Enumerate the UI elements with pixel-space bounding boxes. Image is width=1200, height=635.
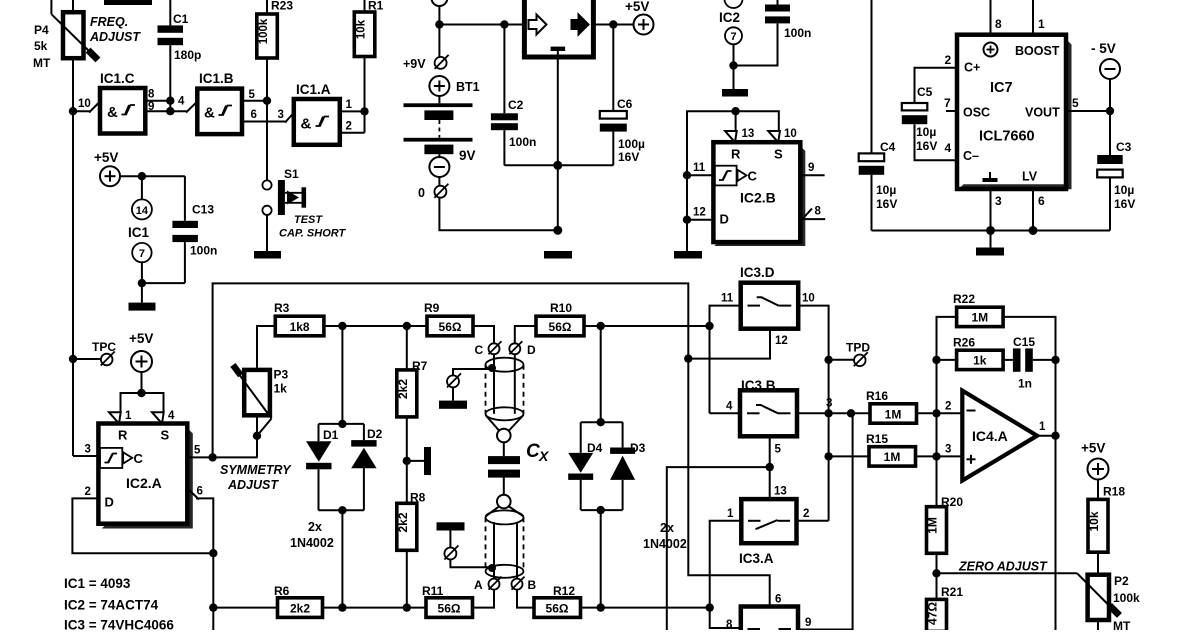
- svg-text:BT1: BT1: [456, 80, 480, 94]
- svg-text:R11: R11: [422, 584, 444, 598]
- wire R1 to IC1.A pins 1,2: [364, 57, 366, 133]
- wire node down to R6 line: [212, 553, 214, 630]
- svg-text:P4: P4: [34, 23, 49, 37]
- capacitor C2: [491, 25, 518, 166]
- svg-text:4: 4: [726, 401, 733, 413]
- node pin9: [166, 107, 174, 115]
- svg-text:9: 9: [808, 162, 814, 174]
- wire IC2.B pin11: [687, 174, 713, 176]
- potentiometer P4: [51, 0, 100, 62]
- svg-text:14: 14: [136, 205, 149, 217]
- svg-text:C: C: [526, 441, 540, 462]
- wire R9 to C terminal: [473, 326, 494, 343]
- wire +5V to R/S bracket: [141, 372, 143, 393]
- node IC3.D pin12 junction: [684, 354, 692, 362]
- wire IC3.B pin5 down: [769, 436, 771, 499]
- svg-text:+5V: +5V: [129, 331, 153, 346]
- diode D4: [568, 453, 593, 510]
- resistor R10 56ohm: [536, 301, 584, 336]
- pin circle 14: [141, 176, 143, 199]
- wire IC3.D pin11: [710, 306, 741, 414]
- IC2 pin circle 7: [725, 27, 742, 44]
- wire IC1.B pin6 to IC1.A pin3 with slash: [242, 121, 287, 123]
- wire IC7 pin1 top: [1032, 0, 1034, 35]
- svg-text:16V: 16V: [916, 139, 937, 153]
- upper guard left stub to ground: [453, 369, 492, 376]
- svg-text:0: 0: [418, 186, 425, 200]
- svg-text:3: 3: [826, 398, 832, 410]
- ground under IC7: [990, 231, 992, 248]
- node pin2/pin6: [209, 549, 217, 557]
- svg-text:C15: C15: [1013, 335, 1035, 349]
- capacitor C5: [902, 103, 957, 160]
- svg-text:TPD: TPD: [846, 341, 870, 355]
- capacitor C13: [142, 176, 198, 283]
- svg-text:11: 11: [693, 162, 706, 174]
- svg-text:+9V: +9V: [403, 57, 426, 71]
- svg-text:C: C: [475, 343, 484, 357]
- svg-text:C6: C6: [617, 97, 633, 111]
- svg-text:S1: S1: [284, 167, 299, 181]
- wire IC7 pin2 C+ to C5: [915, 68, 958, 103]
- svg-text:10: 10: [802, 293, 815, 305]
- wire IC7 pin7 OSC stub: [946, 110, 957, 112]
- S flag pin4: [152, 412, 164, 423]
- wire +5V to C13: [120, 175, 185, 177]
- svg-text:R: R: [731, 147, 741, 162]
- svg-text:10: 10: [78, 98, 91, 110]
- wire to IC1.B pin4 with slash: [170, 110, 187, 112]
- wire B terminal to R12: [517, 590, 534, 608]
- NAND gate IC1.C: [100, 71, 145, 134]
- svg-text:10µ: 10µ: [1114, 183, 1134, 197]
- svg-text:C: C: [748, 169, 758, 184]
- wire op-amp output: [1037, 435, 1055, 437]
- decoupling capacitor 100n at IC2: [734, 0, 791, 66]
- terminal D: [509, 343, 520, 354]
- svg-text:7: 7: [730, 31, 736, 43]
- cut-off gate box at top edge: [104, 0, 152, 5]
- svg-text:8: 8: [726, 619, 733, 630]
- svg-text:IC3.D: IC3.D: [740, 265, 775, 280]
- svg-text:B: B: [528, 578, 537, 592]
- feedback rail R22/R26: [937, 317, 957, 413]
- diode D2: [351, 440, 376, 510]
- wire IC1.B pin5 to R23: [242, 100, 267, 102]
- svg-text:C+: C+: [964, 61, 980, 75]
- svg-text:3: 3: [945, 444, 951, 456]
- svg-text:R22: R22: [953, 292, 975, 306]
- svg-text:D2: D2: [367, 427, 383, 441]
- svg-text:C13: C13: [192, 203, 214, 217]
- svg-text:R6: R6: [274, 584, 290, 598]
- resistor R15 1M: [866, 432, 916, 466]
- svg-text:2: 2: [945, 401, 951, 413]
- wire IC2.A pin6 with slash: [196, 498, 213, 553]
- wire IC2.A pin3 from left rail: [73, 455, 98, 457]
- svg-text:ADJUST: ADJUST: [227, 478, 279, 492]
- svg-text:6: 6: [775, 594, 781, 606]
- bottom chain wire: [213, 607, 277, 609]
- lower guard left stub with ground above: [437, 522, 465, 530]
- svg-text:4: 4: [178, 96, 185, 108]
- svg-text:IC4.A: IC4.A: [972, 428, 1008, 444]
- svg-text:3: 3: [85, 444, 91, 456]
- wire D4/D3 to R12 line: [600, 510, 602, 607]
- svg-text:2x: 2x: [308, 520, 322, 534]
- TPD test point: [824, 356, 832, 364]
- terminal 0: [438, 177, 440, 186]
- battery BT1 plus terminal: [429, 76, 449, 96]
- svg-text:56Ω: 56Ω: [549, 320, 572, 334]
- svg-text:C3: C3: [1116, 140, 1132, 154]
- svg-text:FREQ.: FREQ.: [90, 15, 128, 29]
- svg-text:R: R: [118, 428, 128, 443]
- resistor R1 10k: [354, 0, 383, 57]
- svg-text:10k: 10k: [356, 19, 368, 39]
- svg-text:56Ω: 56Ω: [546, 601, 569, 615]
- wire R7 to R8: [406, 417, 408, 503]
- capacitor under test Cx: [488, 442, 520, 494]
- svg-text:C: C: [134, 451, 144, 466]
- wire IC7 pin3: [990, 189, 992, 231]
- IC2 pin circle 14 cut at top: [725, 0, 743, 8]
- svg-text:8: 8: [815, 206, 822, 218]
- svg-text:4: 4: [945, 141, 952, 155]
- svg-text:SYMMETRY: SYMMETRY: [220, 463, 292, 477]
- NAND gate IC1.A: [294, 82, 340, 145]
- node IC3.A pin1 / pin8: [706, 603, 714, 611]
- capacitor C6 electrolytic: [600, 25, 627, 166]
- svg-text:D: D: [527, 343, 536, 357]
- wire R12 to IC3 area: [581, 607, 710, 609]
- svg-text:13: 13: [742, 128, 755, 140]
- svg-text:X: X: [538, 448, 550, 464]
- svg-text:1M: 1M: [884, 450, 901, 464]
- svg-text:S: S: [161, 428, 170, 443]
- IC7 ICL7660 box: [957, 35, 1072, 190]
- battery BT1 cells: [404, 96, 473, 154]
- wire 7 to ground: [141, 262, 143, 302]
- op-amp IC4.A: [962, 391, 1037, 481]
- wire D1/D2 feed: [341, 326, 343, 424]
- svg-text:CAP. SHORT: CAP. SHORT: [279, 228, 347, 240]
- potentiometer P2: [1077, 573, 1122, 630]
- svg-text:IC1.A: IC1.A: [296, 82, 331, 97]
- diode pair D1 D2 rails: [319, 423, 364, 425]
- svg-text:IC2: IC2: [719, 10, 740, 25]
- svg-text:1M: 1M: [926, 517, 940, 534]
- svg-text:100n: 100n: [509, 135, 536, 149]
- svg-text:9: 9: [148, 101, 154, 113]
- svg-text:1k: 1k: [973, 354, 987, 368]
- svg-text:C5: C5: [917, 85, 933, 99]
- switch S1 TEST CAP.SHORT: [262, 167, 306, 215]
- svg-text:4: 4: [168, 410, 175, 422]
- svg-text:16V: 16V: [618, 150, 639, 164]
- svg-text:3: 3: [995, 194, 1002, 208]
- svg-text:BOOST: BOOST: [1015, 44, 1060, 58]
- svg-text:1M: 1M: [885, 407, 902, 421]
- svg-text:100µ: 100µ: [618, 137, 645, 151]
- resistor R18 10k: [1087, 499, 1108, 552]
- svg-text:R26: R26: [953, 336, 975, 350]
- lower guard can: [486, 495, 524, 579]
- upper guard can: [486, 354, 524, 442]
- svg-text:MT: MT: [1113, 619, 1131, 630]
- svg-text:5: 5: [1072, 96, 1079, 110]
- svg-text:2: 2: [85, 486, 91, 498]
- svg-text:ICL7660: ICL7660: [979, 129, 1035, 145]
- svg-text:TPC: TPC: [92, 340, 116, 354]
- svg-text:&: &: [301, 116, 312, 133]
- svg-text:IC1.C: IC1.C: [100, 71, 135, 86]
- svg-text:100k: 100k: [1113, 591, 1140, 605]
- svg-text:1: 1: [346, 99, 353, 111]
- diode pair bottom rail: [319, 509, 364, 511]
- ground under IC1: [129, 303, 156, 311]
- svg-text:2k2: 2k2: [396, 512, 410, 532]
- svg-text:2: 2: [803, 508, 809, 520]
- wire R15 line from TPD rail: [829, 455, 869, 457]
- svg-text:LV: LV: [1022, 170, 1038, 184]
- wire IC2 pin7 to ground: [733, 44, 735, 89]
- node R23/pin5: [263, 97, 271, 105]
- svg-text:47Ω: 47Ω: [926, 602, 940, 625]
- wire pin5 branch to bottom edge: [667, 467, 770, 630]
- wire IC1.C pin9: [145, 110, 170, 112]
- svg-text:1k: 1k: [274, 382, 288, 396]
- resistor R7 2k2: [396, 326, 428, 417]
- wire IC2.B pin8 stub with slash: [800, 218, 825, 220]
- svg-text:100n: 100n: [190, 244, 217, 258]
- svg-text:11: 11: [721, 293, 734, 305]
- screen electrode at R7/R8 junction: [407, 460, 424, 462]
- R flag pin13: [725, 131, 737, 142]
- wire IC2.A pin2: [72, 498, 213, 553]
- svg-text:IC1.B: IC1.B: [199, 71, 234, 86]
- analog switch IC3.A: [739, 486, 797, 567]
- terminal circle at top edge above battery: [431, 0, 447, 6]
- wire +5V to R18: [1097, 480, 1099, 500]
- capacitor C4: [859, 0, 885, 231]
- wire R16 to op-amp pin2: [917, 412, 963, 414]
- wire IC3.A pin1: [710, 521, 742, 608]
- svg-text:5k: 5k: [34, 39, 48, 53]
- diode D3: [610, 448, 635, 511]
- svg-text:S: S: [774, 147, 783, 162]
- diode D1: [306, 441, 331, 510]
- wire zero adjust to P2 wiper: [937, 572, 1078, 574]
- wire IC2.B pin12: [687, 219, 713, 221]
- resistor R21 47ohm: [926, 585, 964, 631]
- NAND gate IC1.B: [197, 71, 242, 134]
- wire IC3.B pin3 to R16: [797, 412, 870, 414]
- svg-text:+5V: +5V: [625, 0, 649, 14]
- svg-text:- 5V: - 5V: [1091, 41, 1116, 56]
- svg-text:7: 7: [139, 248, 145, 260]
- ground rail under IC7: [872, 230, 1111, 232]
- wire R23 down to S1 (crosses pin6 line): [266, 58, 268, 181]
- svg-text:180p: 180p: [174, 48, 201, 62]
- wire IC1.C pin10 input with slash: [73, 110, 91, 112]
- wire IC3.B pin4: [710, 412, 741, 414]
- R flag pin1: [109, 412, 121, 423]
- svg-text:OSC: OSC: [963, 106, 990, 120]
- svg-text:D4: D4: [587, 441, 603, 455]
- svg-text:C2: C2: [508, 98, 524, 112]
- svg-text:6: 6: [251, 109, 257, 121]
- svg-text:D3: D3: [630, 441, 646, 455]
- wire R10 to IC3.B pin4 rail: [584, 325, 710, 327]
- svg-text:3: 3: [278, 109, 284, 121]
- svg-text:D1: D1: [323, 428, 339, 442]
- S flag pin10: [768, 131, 780, 142]
- wire regulator out to +5V: [593, 24, 633, 26]
- TPC test point: [69, 355, 77, 363]
- wire IC3.D pin12: [688, 329, 770, 359]
- wire P3 bottom to pin5 line: [256, 415, 258, 457]
- wire feedback rail to IC3 (line A): [213, 283, 770, 606]
- wire P4 top stub: [72, 0, 74, 12]
- wire R11 to A terminal: [473, 590, 495, 608]
- resistor R23 100k: [257, 0, 294, 58]
- analog switch IC3.C: [741, 594, 798, 635]
- node P4/IC1.C pin10: [69, 107, 77, 115]
- svg-text:2: 2: [346, 121, 352, 133]
- wire R22 right: [1003, 317, 1055, 630]
- svg-text:R15: R15: [866, 432, 888, 446]
- svg-text:2: 2: [945, 53, 952, 67]
- wire IC2.A pin5: [187, 456, 257, 458]
- wire IC2.B pin9 stub: [800, 174, 824, 176]
- capacitor C3: [1097, 111, 1123, 231]
- terminal B: [512, 579, 523, 590]
- svg-text:R9: R9: [424, 301, 440, 315]
- resistor R11 56ohm: [422, 584, 473, 617]
- svg-text:IC2.B: IC2.B: [740, 190, 776, 206]
- flip-flop IC2.B top wire: [687, 111, 779, 175]
- resistor R8 2k2: [396, 491, 426, 551]
- flip-flop IC2.A box: [98, 424, 192, 529]
- svg-text:2k2: 2k2: [396, 379, 410, 399]
- wire IC1.A pin1: [340, 110, 365, 112]
- svg-text:1N4002: 1N4002: [643, 537, 687, 551]
- svg-text:&: &: [107, 104, 118, 121]
- svg-text:5: 5: [249, 89, 256, 101]
- svg-text:8: 8: [995, 17, 1002, 31]
- resistor R12 56ohm: [534, 584, 581, 617]
- svg-text:5: 5: [775, 444, 782, 456]
- voltage regulator box (cut at top): [524, 0, 593, 57]
- wire IC7 pin6: [1032, 189, 1034, 231]
- wire IC3.C pin9: [798, 413, 853, 629]
- wire IC2.B left rail to ground: [686, 175, 688, 251]
- svg-text:100k: 100k: [258, 18, 270, 44]
- resistor R3 1k8: [274, 301, 324, 336]
- wire D terminal to R10: [515, 326, 536, 343]
- svg-text:IC1: IC1: [128, 225, 150, 240]
- svg-text:R3: R3: [274, 301, 290, 315]
- svg-text:IC1 = 4093: IC1 = 4093: [64, 576, 131, 591]
- svg-text:8: 8: [148, 89, 155, 101]
- diode pair D4 D3 bottom rail: [581, 509, 623, 511]
- wire battery top to regulator: [438, 6, 440, 57]
- svg-text:ZERO ADJUST: ZERO ADJUST: [958, 560, 1048, 574]
- svg-text:5: 5: [194, 445, 201, 457]
- diode pair D4 D3 top rail: [581, 421, 623, 423]
- rail C2-C6: [504, 164, 613, 166]
- wire S1 to ground: [266, 215, 268, 251]
- wire to IC3.C pin8: [710, 608, 741, 628]
- wire IC1.C pin8: [145, 100, 170, 102]
- svg-text:1: 1: [727, 508, 734, 520]
- svg-text:13: 13: [774, 486, 787, 498]
- wire R3 to R9 chain: [324, 325, 427, 327]
- wire IC7 pin8 top: [990, 0, 992, 35]
- svg-text:9: 9: [805, 617, 811, 629]
- svg-text:1n: 1n: [1018, 377, 1032, 391]
- svg-text:MT: MT: [33, 56, 51, 70]
- svg-text:P2: P2: [1114, 574, 1129, 588]
- capacitor C1: [158, 0, 184, 111]
- svg-text:16V: 16V: [1114, 197, 1135, 211]
- resistor R6 2k2: [274, 584, 323, 617]
- svg-text:1: 1: [1039, 421, 1046, 433]
- wire D4/D3 feed from R10 line: [600, 326, 602, 422]
- svg-text:D: D: [105, 495, 114, 510]
- svg-text:6: 6: [1038, 194, 1045, 208]
- analog switch IC3.B: [740, 378, 797, 436]
- svg-text:IC2 = 74ACT74: IC2 = 74ACT74: [64, 598, 159, 613]
- svg-text:C1: C1: [173, 12, 189, 26]
- wire IC3.D pin10: [798, 306, 828, 521]
- svg-text:R18: R18: [1103, 485, 1125, 499]
- potentiometer P3: [230, 363, 271, 436]
- svg-text:VOUT: VOUT: [1025, 106, 1060, 120]
- svg-text:16V: 16V: [876, 197, 897, 211]
- svg-text:IC3 = 74VHC4066: IC3 = 74VHC4066: [64, 618, 174, 631]
- svg-text:1k8: 1k8: [290, 320, 310, 334]
- wire R3 left to P3: [257, 326, 275, 370]
- ground under S1: [254, 251, 281, 259]
- ground under IC2.B: [674, 251, 702, 259]
- svg-text:56Ω: 56Ω: [438, 601, 461, 615]
- wire D1/D2 to R6 line: [341, 510, 343, 607]
- svg-text:10k: 10k: [1087, 511, 1101, 531]
- svg-text:C4: C4: [880, 140, 896, 154]
- wire R15 to op-amp pin3: [916, 455, 963, 457]
- svg-text:ADJUST: ADJUST: [89, 30, 141, 44]
- capacitor C15: [1003, 348, 1055, 371]
- resistor R9 56ohm: [424, 301, 473, 336]
- svg-text:IC7: IC7: [990, 80, 1013, 96]
- svg-text:9V: 9V: [459, 148, 476, 163]
- svg-text:R23: R23: [271, 0, 293, 13]
- resistor R16 1M: [866, 389, 917, 423]
- svg-text:1: 1: [125, 410, 132, 422]
- ground under regulator rail: [544, 251, 572, 259]
- svg-text:100n: 100n: [784, 26, 811, 40]
- resistor R26 1k: [953, 336, 1003, 370]
- svg-text:C–: C–: [963, 149, 979, 163]
- wire regulator ground down: [557, 57, 559, 230]
- svg-text:7: 7: [944, 96, 951, 110]
- svg-text:1M: 1M: [971, 311, 988, 325]
- battery minus terminal: [438, 154, 440, 157]
- svg-text:56Ω: 56Ω: [439, 320, 462, 334]
- wire R18 to P2: [1097, 552, 1099, 575]
